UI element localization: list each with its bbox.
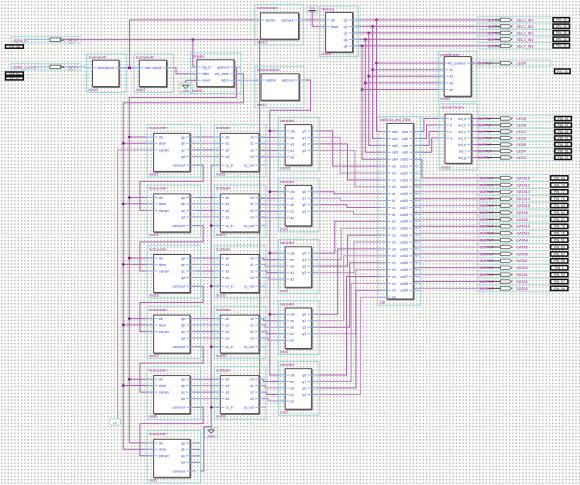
- output pin LEDB PIN_47: [471, 123, 571, 127]
- wire mux outc to decode c: [413, 132, 445, 146]
- svg-text:carryout: carryout: [173, 224, 185, 228]
- cyan grid DATA outputs: [478, 175, 550, 292]
- svg-text:s2: s2: [250, 209, 254, 213]
- svg-text:SEL2_INV: SEL2_INV: [517, 31, 535, 35]
- wire q2 tap to point5b input: [369, 75, 445, 77]
- svg-text:inst10: inst10: [89, 88, 99, 92]
- output pin DATA4 PIN_91: [480, 238, 568, 243]
- svg-text:PIN_97: PIN_97: [554, 280, 565, 284]
- output pin LEDC PIN_49: [471, 129, 571, 134]
- wire mux out210 to DATA row10: [413, 246, 487, 248]
- svg-text:cy_out: cy_out: [244, 345, 254, 349]
- svg-text:a3: a3: [226, 276, 230, 280]
- wire cy_in stub adder5: [210, 406, 220, 409]
- svg-text:qa: qa: [181, 317, 185, 321]
- svg-text:qd: qd: [181, 276, 185, 280]
- svg-text:inst: inst: [380, 301, 385, 305]
- clock gate clkgate inst26: [190, 53, 241, 94]
- svg-text:clear: clear: [159, 448, 167, 452]
- svg-text:b: b: [450, 123, 452, 127]
- svg-text:q0: q0: [302, 129, 306, 133]
- wire latch5 q to mux inputs: [311, 277, 387, 395]
- output pin DATA9 PIN_82: [480, 217, 568, 222]
- svg-text:q3: q3: [302, 210, 306, 214]
- svg-text:DATA8: DATA8: [517, 211, 528, 215]
- svg-text:b1: b1: [392, 199, 396, 203]
- svg-text:a1: a1: [290, 271, 294, 275]
- wire adder1 sum to latch1 data: [259, 137, 285, 157]
- svg-text:q1: q1: [344, 25, 348, 29]
- svg-text:PIN_87: PIN_87: [554, 252, 565, 256]
- wire latch clk tap latch4: [269, 313, 286, 316]
- svg-text:clk: clk: [159, 135, 163, 139]
- svg-text:a1: a1: [226, 263, 230, 267]
- svg-text:OUTPUT: OUTPUT: [480, 176, 494, 180]
- svg-text:bcdcounter: bcdcounter: [149, 368, 168, 372]
- wire latch4 q to mux inputs: [311, 249, 387, 334]
- svg-text:a2: a2: [226, 269, 230, 273]
- latch latch4bit inst2: [278, 178, 319, 232]
- svg-text:a4: a4: [449, 88, 453, 92]
- output pin DATA12 PIN_74: [480, 183, 568, 188]
- svg-text:latch: latch: [221, 79, 228, 83]
- svg-text:OUTPUT: OUTPUT: [478, 136, 492, 140]
- wire counter1 q to adder1 a: [190, 137, 220, 156]
- svg-text:led_f: led_f: [459, 149, 466, 153]
- svg-text:qa: qa: [181, 135, 185, 139]
- output pin DATA1 PIN_99: [480, 273, 568, 278]
- output pin SEL3_INV PIN_33: [488, 37, 570, 42]
- svg-text:turnsmulatch: turnsmulatch: [257, 6, 278, 10]
- svg-text:out29: out29: [400, 220, 408, 224]
- wire mux out216 to DATA row16: [413, 287, 487, 289]
- svg-text:carryin: carryin: [159, 148, 169, 152]
- svg-text:out25: out25: [400, 192, 408, 196]
- svg-text:a3: a3: [392, 247, 396, 251]
- svg-text:bcd5add: bcd5add: [216, 368, 230, 372]
- svg-text:outa: outa: [402, 130, 408, 134]
- svg-text:qc: qc: [181, 209, 185, 213]
- svg-text:sel4: sel4: [392, 158, 398, 162]
- svg-text:SEL4_INV: SEL4_INV: [517, 44, 535, 48]
- svg-text:b3: b3: [392, 254, 396, 258]
- svg-text:q2: q2: [302, 142, 306, 146]
- svg-text:bcdcounter: bcdcounter: [149, 308, 168, 312]
- svg-text:carryin: carryin: [159, 454, 169, 458]
- svg-text:out39: out39: [400, 289, 408, 293]
- svg-text:qd: qd: [181, 215, 185, 219]
- svg-text:qd: qd: [181, 461, 185, 465]
- svg-text:out26: out26: [400, 199, 408, 203]
- svg-text:a1: a1: [290, 210, 294, 214]
- svg-text:qa: qa: [181, 441, 185, 445]
- svg-text:a: a: [450, 117, 452, 121]
- svg-text:q2: q2: [302, 265, 306, 269]
- svg-text:a0: a0: [290, 386, 294, 390]
- svg-text:DATA14: DATA14: [517, 197, 530, 201]
- svg-text:s3: s3: [250, 215, 254, 219]
- svg-text:inst21: inst21: [216, 173, 226, 177]
- svg-text:DATA3: DATA3: [517, 287, 528, 291]
- svg-text:OUTPUT: OUTPUT: [480, 197, 494, 201]
- svg-text:SEL0_INV: SEL0_INV: [517, 18, 535, 22]
- svg-text:PIN_89: PIN_89: [554, 245, 565, 249]
- svg-text:bcdcounter: bcdcounter: [149, 432, 168, 436]
- svg-text:blinking: blinking: [322, 8, 334, 12]
- svg-text:led_d: led_d: [458, 136, 466, 140]
- svg-text:s0: s0: [250, 378, 254, 382]
- svg-text:gateout: gateout: [217, 66, 229, 70]
- svg-text:carryin: carryin: [159, 391, 169, 395]
- svg-text:inst33: inst33: [216, 354, 226, 358]
- svg-text:q1: q1: [302, 319, 306, 323]
- wire q3 vertical to mux sel3: [364, 39, 387, 152]
- svg-text:qb: qb: [181, 384, 185, 388]
- svg-text:bcd5add: bcd5add: [216, 187, 230, 191]
- output pin LEDD PIN_51: [471, 136, 571, 141]
- svg-text:inst27: inst27: [149, 173, 159, 177]
- latch block turnsmulatch inst10: [254, 5, 305, 46]
- svg-text:VCC: VCC: [68, 41, 74, 45]
- svg-text:a2: a2: [290, 339, 294, 343]
- svg-text:q2: q2: [302, 386, 306, 390]
- svg-text:LEDB: LEDB: [517, 123, 527, 127]
- svg-text:a2: a2: [290, 399, 294, 403]
- svg-text:inst4: inst4: [280, 350, 288, 354]
- svg-text:s2: s2: [250, 269, 254, 273]
- wire gateout to counter clk net: [129, 67, 236, 443]
- counter bcdcounter inst27: [147, 125, 200, 177]
- svg-text:cy_in: cy_in: [226, 406, 234, 410]
- output pin DATA7 PIN_85: [480, 259, 568, 264]
- counter bcdcounter inst5: [147, 431, 200, 483]
- wire counter1 carryout to next carryin: [140, 165, 203, 210]
- svg-text:q0: q0: [302, 252, 306, 256]
- decoder decode7seginv inst16: [439, 104, 478, 170]
- wire clk tap counter5: [128, 378, 154, 381]
- svg-text:en: en: [290, 380, 294, 384]
- svg-text:d0: d0: [392, 185, 396, 189]
- svg-text:clk: clk: [290, 252, 294, 256]
- output pin SEL2_INV PIN_28: [488, 31, 570, 36]
- svg-text:inst11: inst11: [257, 103, 266, 107]
- svg-text:a0: a0: [226, 257, 230, 261]
- svg-text:OUTPUT: OUTPUT: [478, 117, 492, 121]
- wire clk tap counter6: [129, 442, 153, 444]
- svg-text:DATA5: DATA5: [517, 245, 528, 249]
- svg-text:PIN_70: PIN_70: [554, 197, 565, 201]
- svg-text:out37: out37: [400, 275, 408, 279]
- svg-text:OUTPUT: OUTPUT: [478, 156, 492, 160]
- wire adder cy chain: [210, 165, 212, 429]
- svg-text:DATA16: DATA16: [517, 176, 530, 180]
- svg-text:clkout: clkout: [105, 66, 114, 70]
- svg-text:a2: a2: [226, 391, 230, 395]
- cyan grid LED outputs: [478, 115, 554, 161]
- wire clk tap counter1: [128, 136, 154, 139]
- svg-text:clk: clk: [290, 129, 294, 133]
- wire counter5 carryout to next carryin: [140, 407, 203, 456]
- wire cnt_clear net: [123, 74, 243, 450]
- svg-text:DATA1: DATA1: [517, 273, 528, 277]
- svg-text:c0: c0: [392, 178, 396, 182]
- svg-text:qd: qd: [181, 155, 185, 159]
- wire clk tap counter2: [128, 196, 154, 199]
- svg-text:LEDP: LEDP: [517, 62, 527, 66]
- svg-text:inst13: inst13: [149, 354, 159, 358]
- wire mux out215 to DATA row15: [413, 281, 487, 283]
- svg-text:sel1: sel1: [392, 137, 398, 141]
- svg-text:qc: qc: [181, 454, 185, 458]
- svg-text:a1: a1: [290, 332, 294, 336]
- svg-text:a1: a1: [226, 323, 230, 327]
- svg-text:q4: q4: [344, 44, 348, 48]
- svg-text:GND: GND: [182, 89, 190, 93]
- svg-text:a2: a2: [290, 216, 294, 220]
- wire mux out214 to DATA row14: [413, 274, 487, 276]
- svg-text:out28: out28: [400, 213, 408, 217]
- wire turnsmulatch latchout to blinking clk: [299, 19, 327, 21]
- vcc box bottom left: [110, 419, 121, 425]
- svg-text:OUTPUT: OUTPUT: [480, 252, 494, 256]
- svg-text:a0: a0: [290, 326, 294, 330]
- svg-text:carryout: carryout: [173, 406, 185, 410]
- svg-text:s2: s2: [250, 330, 254, 334]
- svg-text:out24: out24: [400, 185, 408, 189]
- svg-text:qa: qa: [181, 196, 185, 200]
- svg-text:LEDE: LEDE: [517, 143, 527, 147]
- wire latch clk tap latch1: [269, 130, 286, 133]
- svg-text:s1: s1: [250, 384, 254, 388]
- svg-text:PIN_68: PIN_68: [554, 204, 565, 208]
- svg-text:inst25: inst25: [322, 52, 332, 56]
- svg-text:inst32: inst32: [216, 294, 226, 298]
- svg-text:latchin: latchin: [266, 78, 276, 82]
- svg-text:bcdcounter: bcdcounter: [149, 126, 168, 130]
- svg-text:a0: a0: [226, 135, 230, 139]
- svg-text:OUTPUT: OUTPUT: [480, 287, 494, 291]
- svg-text:latchin: latchin: [266, 18, 276, 22]
- svg-text:led_a: led_a: [458, 117, 466, 121]
- svg-text:s2: s2: [250, 391, 254, 395]
- wire q0 vertical to mux sel0: [375, 20, 387, 132]
- svg-text:a2: a2: [226, 148, 230, 152]
- svg-text:DATA11: DATA11: [517, 232, 530, 236]
- svg-text:OUTPUT: OUTPUT: [480, 211, 494, 215]
- svg-text:qb: qb: [181, 202, 185, 206]
- svg-text:reset: reset: [331, 25, 339, 29]
- svg-text:qd: qd: [181, 336, 185, 340]
- svg-text:a2: a2: [290, 155, 294, 159]
- svg-text:PIN_66: PIN_66: [554, 176, 565, 180]
- wire clkgate latch to turnsmulatch4 latchin: [234, 79, 261, 81]
- svg-text:latchout: latchout: [282, 78, 294, 82]
- svg-text:a4: a4: [392, 275, 396, 279]
- svg-text:A1: A1: [449, 68, 453, 72]
- svg-text:PIN_53: PIN_53: [558, 143, 569, 147]
- wire clear tap counter2: [122, 203, 154, 206]
- wire counter2 q to adder2 a: [190, 198, 220, 217]
- svg-text:d3: d3: [392, 268, 396, 272]
- wire clear tap counter4: [122, 324, 154, 327]
- output pin DATA0 PIN_1: [480, 266, 568, 271]
- wire signal_in to clkgate sig_in: [64, 38, 260, 407]
- svg-text:LVTTL: LVTTL: [10, 76, 20, 80]
- svg-text:PIN_33: PIN_33: [556, 38, 567, 42]
- svg-text:clk: clk: [159, 378, 163, 382]
- svg-text:bcdcounter: bcdcounter: [149, 247, 168, 251]
- svg-text:a0: a0: [392, 165, 396, 169]
- svg-text:s2: s2: [250, 148, 254, 152]
- svg-text:carryout: carryout: [173, 345, 185, 349]
- svg-text:PIN_72: PIN_72: [554, 190, 565, 194]
- svg-text:LEDC: LEDC: [517, 130, 527, 134]
- ground GND below adder5: [205, 428, 218, 438]
- svg-text:clkin: clkin: [202, 72, 209, 76]
- svg-text:en: en: [290, 258, 294, 262]
- svg-text:cy_out: cy_out: [244, 406, 254, 410]
- svg-text:q3: q3: [302, 149, 306, 153]
- svg-text:clk: clk: [290, 373, 294, 377]
- counter block blinking inst25: [319, 6, 359, 57]
- counter bcdcounter inst8: [147, 367, 200, 419]
- svg-text:OUTPUT: OUTPUT: [480, 190, 494, 194]
- svg-text:10MHz_CLOCK: 10MHz_CLOCK: [12, 65, 36, 69]
- svg-text:DATA10: DATA10: [517, 225, 530, 229]
- svg-text:cy_in: cy_in: [226, 285, 234, 289]
- svg-text:OUTPUT: OUTPUT: [488, 31, 502, 35]
- svg-text:clear: clear: [159, 263, 167, 267]
- wire mux out26 to DATA row6: [413, 218, 487, 220]
- wire mux outb to decode b: [413, 125, 445, 139]
- wire adder4 sum to latch4 data: [259, 319, 285, 341]
- svg-text:en: en: [290, 197, 294, 201]
- svg-text:LEDG: LEDG: [517, 156, 527, 160]
- svg-text:out33: out33: [400, 247, 408, 251]
- svg-text:led_b: led_b: [458, 123, 466, 127]
- svg-text:PIN_36: PIN_36: [557, 70, 568, 74]
- svg-text:s3: s3: [250, 397, 254, 401]
- svg-text:q2: q2: [344, 31, 348, 35]
- wire q0 tap to point5b input: [377, 62, 445, 64]
- svg-text:d4: d4: [392, 296, 396, 300]
- svg-text:b2: b2: [392, 227, 396, 231]
- svg-text:OUTPUT: OUTPUT: [478, 130, 492, 134]
- svg-text:a0: a0: [290, 203, 294, 207]
- svg-text:VCC: VCC: [68, 68, 74, 72]
- wire counter6 carryout to gnd stem: [200, 427, 211, 471]
- svg-text:a1: a1: [226, 202, 230, 206]
- svg-text:PIN_29: PIN_29: [556, 18, 567, 22]
- output pin DATA10 PIN_78: [480, 224, 568, 229]
- wire blinking q3 to SEL3_INV output: [353, 38, 496, 41]
- output pin DATA15 PIN_68: [480, 203, 568, 208]
- svg-text:OUTPUT: OUTPUT: [480, 239, 494, 243]
- svg-text:carryin: carryin: [159, 209, 169, 213]
- wire clear tap counter5: [122, 384, 154, 387]
- svg-text:PIN_25: PIN_25: [556, 25, 567, 29]
- output pin LEDE PIN_53: [471, 142, 571, 147]
- cyan grid SEL outputs: [477, 17, 552, 50]
- output pin LEDG PIN_57: [471, 155, 571, 160]
- wire adder3 sum to latch3 data: [259, 258, 285, 279]
- svg-text:q1: q1: [302, 380, 306, 384]
- svg-text:carryin: carryin: [159, 330, 169, 334]
- svg-text:DATA15: DATA15: [517, 204, 530, 208]
- svg-text:inst15: inst15: [280, 167, 290, 171]
- svg-text:clear: clear: [159, 202, 167, 206]
- svg-text:inst23: inst23: [216, 415, 226, 419]
- svg-text:d2: d2: [392, 240, 396, 244]
- svg-text:latch4bit: latch4bit: [280, 302, 293, 306]
- svg-text:PIN_55: PIN_55: [558, 149, 569, 153]
- svg-text:out22: out22: [400, 171, 408, 175]
- svg-text:inst18: inst18: [149, 294, 159, 298]
- svg-text:clkin: clkin: [145, 66, 152, 70]
- svg-text:out23: out23: [400, 178, 408, 182]
- wire clk tap counter4: [128, 317, 154, 320]
- wire latch clk tap latch3: [269, 252, 286, 255]
- buffer busmybuf5 inst12: [133, 54, 174, 92]
- svg-text:latchout: latchout: [281, 18, 293, 22]
- svg-text:inst2: inst2: [280, 227, 288, 231]
- svg-text:PIN_57: PIN_57: [558, 156, 569, 160]
- svg-text:a1: a1: [392, 192, 396, 196]
- svg-text:OUTPUT: OUTPUT: [488, 44, 502, 48]
- svg-text:inst22: inst22: [216, 233, 226, 237]
- svg-text:b4: b4: [392, 282, 396, 286]
- svg-text:OUTPUT: OUTPUT: [480, 245, 494, 249]
- svg-text:cy_out: cy_out: [244, 164, 254, 168]
- input pin 10MHz_CLOCK with PIN_62 LVTTL: [6, 64, 82, 81]
- svg-text:inst12: inst12: [136, 88, 146, 92]
- output pin DATA14 PIN_70: [480, 197, 568, 202]
- wire counter2 carryout to next carryin: [140, 226, 203, 271]
- svg-text:inst5: inst5: [149, 478, 157, 482]
- output pin SEL0_INV PIN_29: [488, 18, 570, 23]
- counter bcdcounter inst18: [147, 246, 200, 298]
- svg-text:carryout: carryout: [173, 469, 185, 473]
- wire latch clk tap latch2: [269, 190, 286, 193]
- wire mux out24 to DATA row4: [413, 205, 487, 207]
- wire mux out28 to DATA row8: [413, 232, 487, 234]
- svg-text:inst34: inst34: [440, 97, 449, 101]
- svg-text:sel5to1a_and_20bit: sel5to1a_and_20bit: [380, 118, 411, 122]
- svg-text:q1: q1: [302, 136, 306, 140]
- svg-text:c3: c3: [392, 261, 396, 265]
- svg-text:cy_in: cy_in: [226, 224, 234, 228]
- svg-text:PIN_74: PIN_74: [554, 183, 565, 187]
- wire mux out21 to DATA row1: [413, 184, 487, 186]
- svg-text:PIN_85: PIN_85: [554, 259, 565, 263]
- svg-text:DATA2: DATA2: [517, 280, 528, 284]
- svg-text:clk: clk: [290, 190, 294, 194]
- svg-text:bcdcounter: bcdcounter: [149, 187, 168, 191]
- svg-text:clkout: clkout: [152, 66, 161, 70]
- svg-text:PIN_95: PIN_95: [554, 287, 565, 291]
- svg-text:PIN_91: PIN_91: [554, 239, 565, 243]
- svg-text:SEL1_INV: SEL1_INV: [517, 25, 535, 29]
- svg-text:en: en: [290, 319, 294, 323]
- svg-text:signal_in: signal_in: [13, 38, 27, 42]
- output pin DATA16 PIN_66: [480, 176, 568, 181]
- svg-text:c4: c4: [392, 289, 396, 293]
- svg-text:a0: a0: [226, 317, 230, 321]
- svg-text:clk: clk: [159, 441, 163, 445]
- svg-text:clear: clear: [159, 142, 167, 146]
- svg-text:a3: a3: [226, 397, 230, 401]
- svg-text:s1: s1: [250, 142, 254, 146]
